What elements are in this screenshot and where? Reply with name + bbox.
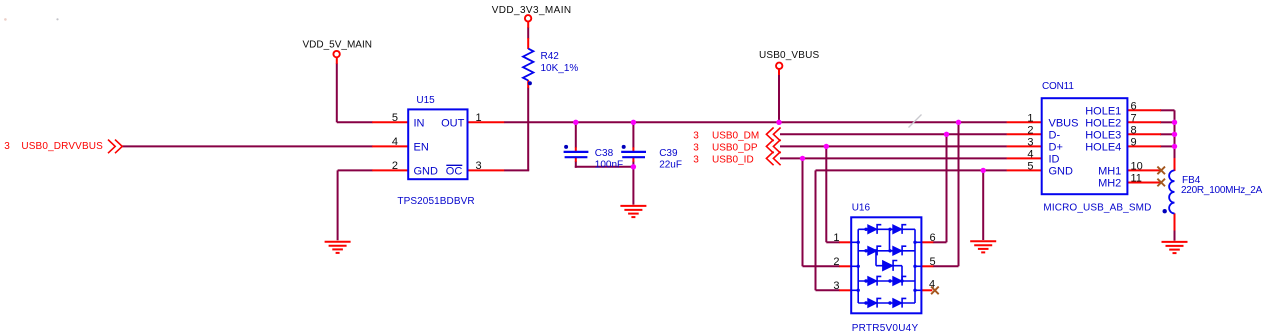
svg-text:3: 3 bbox=[693, 130, 699, 141]
svg-text:VDD_5V_MAIN: VDD_5V_MAIN bbox=[303, 40, 372, 51]
svg-text:3: 3 bbox=[693, 142, 699, 153]
svg-text:8: 8 bbox=[1131, 124, 1137, 136]
svg-text:C39: C39 bbox=[659, 148, 678, 159]
svg-text:C38: C38 bbox=[595, 148, 614, 159]
svg-text:D+: D+ bbox=[1049, 142, 1063, 154]
svg-text:HOLE2: HOLE2 bbox=[1085, 117, 1121, 129]
svg-text:U15: U15 bbox=[416, 95, 435, 106]
svg-text:CON11: CON11 bbox=[1042, 81, 1074, 92]
svg-text:4: 4 bbox=[929, 279, 935, 291]
svg-text:ID: ID bbox=[1049, 154, 1060, 166]
svg-text:HOLE1: HOLE1 bbox=[1085, 105, 1121, 117]
svg-text:5: 5 bbox=[1027, 160, 1033, 172]
svg-text:3: 3 bbox=[476, 160, 482, 172]
svg-text:7: 7 bbox=[1131, 112, 1137, 124]
svg-text:USB0_DP: USB0_DP bbox=[712, 142, 758, 153]
svg-text:10K_1%: 10K_1% bbox=[541, 63, 579, 74]
svg-text:2: 2 bbox=[1027, 124, 1033, 136]
svg-text:9: 9 bbox=[1131, 136, 1137, 148]
svg-text:IN: IN bbox=[414, 117, 425, 129]
svg-text:VBUS: VBUS bbox=[1049, 117, 1079, 129]
svg-text:OC: OC bbox=[446, 166, 463, 178]
svg-text:VDD_3V3_MAIN: VDD_3V3_MAIN bbox=[492, 5, 572, 16]
svg-text:USB0_DRVVBUS: USB0_DRVVBUS bbox=[21, 141, 103, 152]
svg-text:MH2: MH2 bbox=[1098, 178, 1121, 190]
svg-text:2: 2 bbox=[392, 160, 398, 172]
svg-text:OUT: OUT bbox=[441, 117, 465, 129]
svg-text:3: 3 bbox=[4, 141, 10, 152]
svg-text:MH1: MH1 bbox=[1098, 166, 1121, 178]
svg-text:100nF: 100nF bbox=[595, 160, 623, 171]
svg-text:GND: GND bbox=[414, 166, 439, 178]
svg-text:4: 4 bbox=[1027, 148, 1033, 160]
svg-text:5: 5 bbox=[930, 256, 936, 268]
svg-text:11: 11 bbox=[1131, 172, 1142, 184]
svg-text:GND: GND bbox=[1049, 166, 1074, 178]
svg-text:USB0_VBUS: USB0_VBUS bbox=[759, 50, 819, 61]
svg-text:1: 1 bbox=[1027, 112, 1033, 124]
svg-text:5: 5 bbox=[392, 112, 398, 124]
svg-text:3: 3 bbox=[1027, 136, 1033, 148]
svg-text:TPS2051BDBVR: TPS2051BDBVR bbox=[397, 196, 474, 207]
svg-text:3: 3 bbox=[693, 154, 699, 165]
svg-text:EN: EN bbox=[414, 142, 429, 154]
svg-text:HOLE3: HOLE3 bbox=[1085, 129, 1121, 141]
svg-text:6: 6 bbox=[930, 232, 936, 244]
svg-text:USB0_DM: USB0_DM bbox=[712, 130, 759, 141]
svg-text:10: 10 bbox=[1131, 160, 1143, 172]
svg-text:MICRO_USB_AB_SMD: MICRO_USB_AB_SMD bbox=[1043, 202, 1151, 213]
svg-text:USB0_ID: USB0_ID bbox=[712, 154, 754, 165]
svg-text:1: 1 bbox=[833, 232, 839, 244]
svg-text:6: 6 bbox=[1131, 100, 1137, 112]
svg-text:3: 3 bbox=[833, 280, 839, 292]
svg-text:4: 4 bbox=[392, 136, 398, 148]
svg-text:U16: U16 bbox=[852, 202, 871, 213]
svg-text:R42: R42 bbox=[541, 51, 560, 62]
svg-text:1: 1 bbox=[476, 112, 482, 124]
svg-text:D-: D- bbox=[1049, 129, 1061, 141]
svg-text:22uF: 22uF bbox=[659, 160, 682, 171]
svg-text:HOLE4: HOLE4 bbox=[1085, 142, 1121, 154]
svg-text:2: 2 bbox=[833, 256, 839, 268]
svg-text:220R_100MHz_2A: 220R_100MHz_2A bbox=[1181, 185, 1263, 196]
svg-text:PRTR5V0U4Y: PRTR5V0U4Y bbox=[852, 323, 919, 334]
